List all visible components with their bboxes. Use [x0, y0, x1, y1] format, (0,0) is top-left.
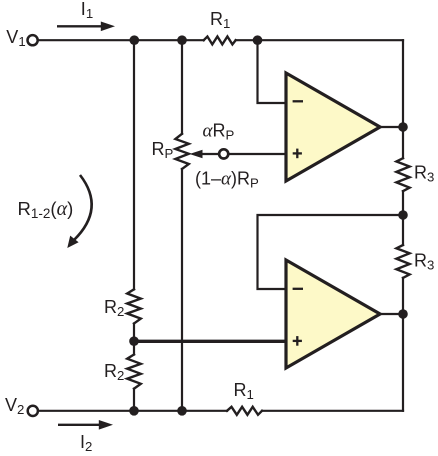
resistor R2 (lower) — [127, 355, 141, 389]
wire right rail middle — [402, 191, 404, 245]
svg-text:R2: R2 — [104, 297, 124, 319]
svg-text:R1-2(α): R1-2(α) — [18, 198, 74, 221]
junction node R1/U1 feedback — [253, 35, 263, 45]
wire U1 output — [380, 126, 403, 128]
resistor R3 (upper) — [396, 158, 409, 191]
svg-text:R3: R3 — [414, 163, 434, 185]
potentiometer RP body — [175, 134, 188, 169]
op-amp U1 minus sign — [293, 100, 303, 102]
wire right rail upper (to R3 top) — [402, 40, 404, 158]
svg-text:I2: I2 — [80, 432, 92, 454]
junction node R3/R3 midpoint — [398, 210, 408, 220]
svg-text:V1: V1 — [6, 27, 25, 49]
wire feedback op-amp U2 inverting input — [258, 215, 404, 289]
arrow I1 current — [57, 22, 115, 32]
op-amp U1 plus sign — [293, 149, 302, 159]
wire top rail V1 node — [37, 39, 204, 41]
resistor R1 (top) — [204, 37, 236, 45]
potentiometer wiper arrow — [190, 150, 219, 158]
wire top rail right of R1 — [236, 39, 403, 41]
op-amp U2 — [286, 260, 380, 368]
op-amp U2 plus sign — [293, 336, 302, 346]
junction node V1/RP branch — [177, 35, 187, 45]
resistor R1 (bottom) — [227, 407, 262, 415]
op-amp U1 — [286, 73, 380, 181]
wire between R2 resistors — [133, 324, 135, 355]
wire vertical RP branch lower — [181, 169, 183, 411]
wire bottom rail V2 node — [37, 410, 228, 412]
op-amp U2 minus sign — [293, 288, 303, 290]
arrow I2 current — [58, 420, 113, 430]
resistor R2 (upper) — [127, 289, 141, 323]
wire feedback op-amp U1 inverting input — [258, 40, 287, 103]
wire vertical R2 branch upper — [133, 40, 135, 289]
svg-text:R1: R1 — [210, 9, 230, 31]
svg-text:(1–α)RP: (1–α)RP — [195, 169, 259, 191]
wire U2 noninverting input (thick) — [134, 340, 286, 343]
svg-text:αRP: αRP — [203, 120, 235, 142]
junction node R2 midpoint — [129, 336, 139, 346]
svg-text:I1: I1 — [81, 0, 93, 21]
svg-text:R1: R1 — [234, 380, 254, 402]
terminal V2 — [28, 406, 38, 416]
wire vertical RP branch upper — [181, 40, 183, 134]
junction node V1/R2 branch — [130, 35, 140, 45]
curved arrow R1-2 — [67, 175, 91, 248]
wire below lower R2 — [133, 389, 135, 411]
svg-text:R3: R3 — [414, 251, 434, 273]
junction node V2/R2 branch — [129, 406, 139, 416]
potentiometer wiper terminal circle — [219, 149, 228, 158]
resistor R3 (lower) — [396, 245, 409, 278]
wire U2 output — [380, 313, 403, 315]
wire wiper to U1 noninverting input — [229, 153, 287, 155]
svg-text:V2: V2 — [5, 395, 24, 417]
svg-text:R2: R2 — [104, 361, 124, 383]
svg-text:RP: RP — [152, 139, 174, 161]
junction node V2/RP branch — [177, 406, 187, 416]
terminal V1 — [27, 35, 37, 45]
junction node U2 output — [398, 309, 408, 319]
wire right rail lower — [402, 278, 404, 411]
wire bottom rail right of R1 — [262, 410, 403, 412]
junction node U1 output — [398, 122, 408, 132]
